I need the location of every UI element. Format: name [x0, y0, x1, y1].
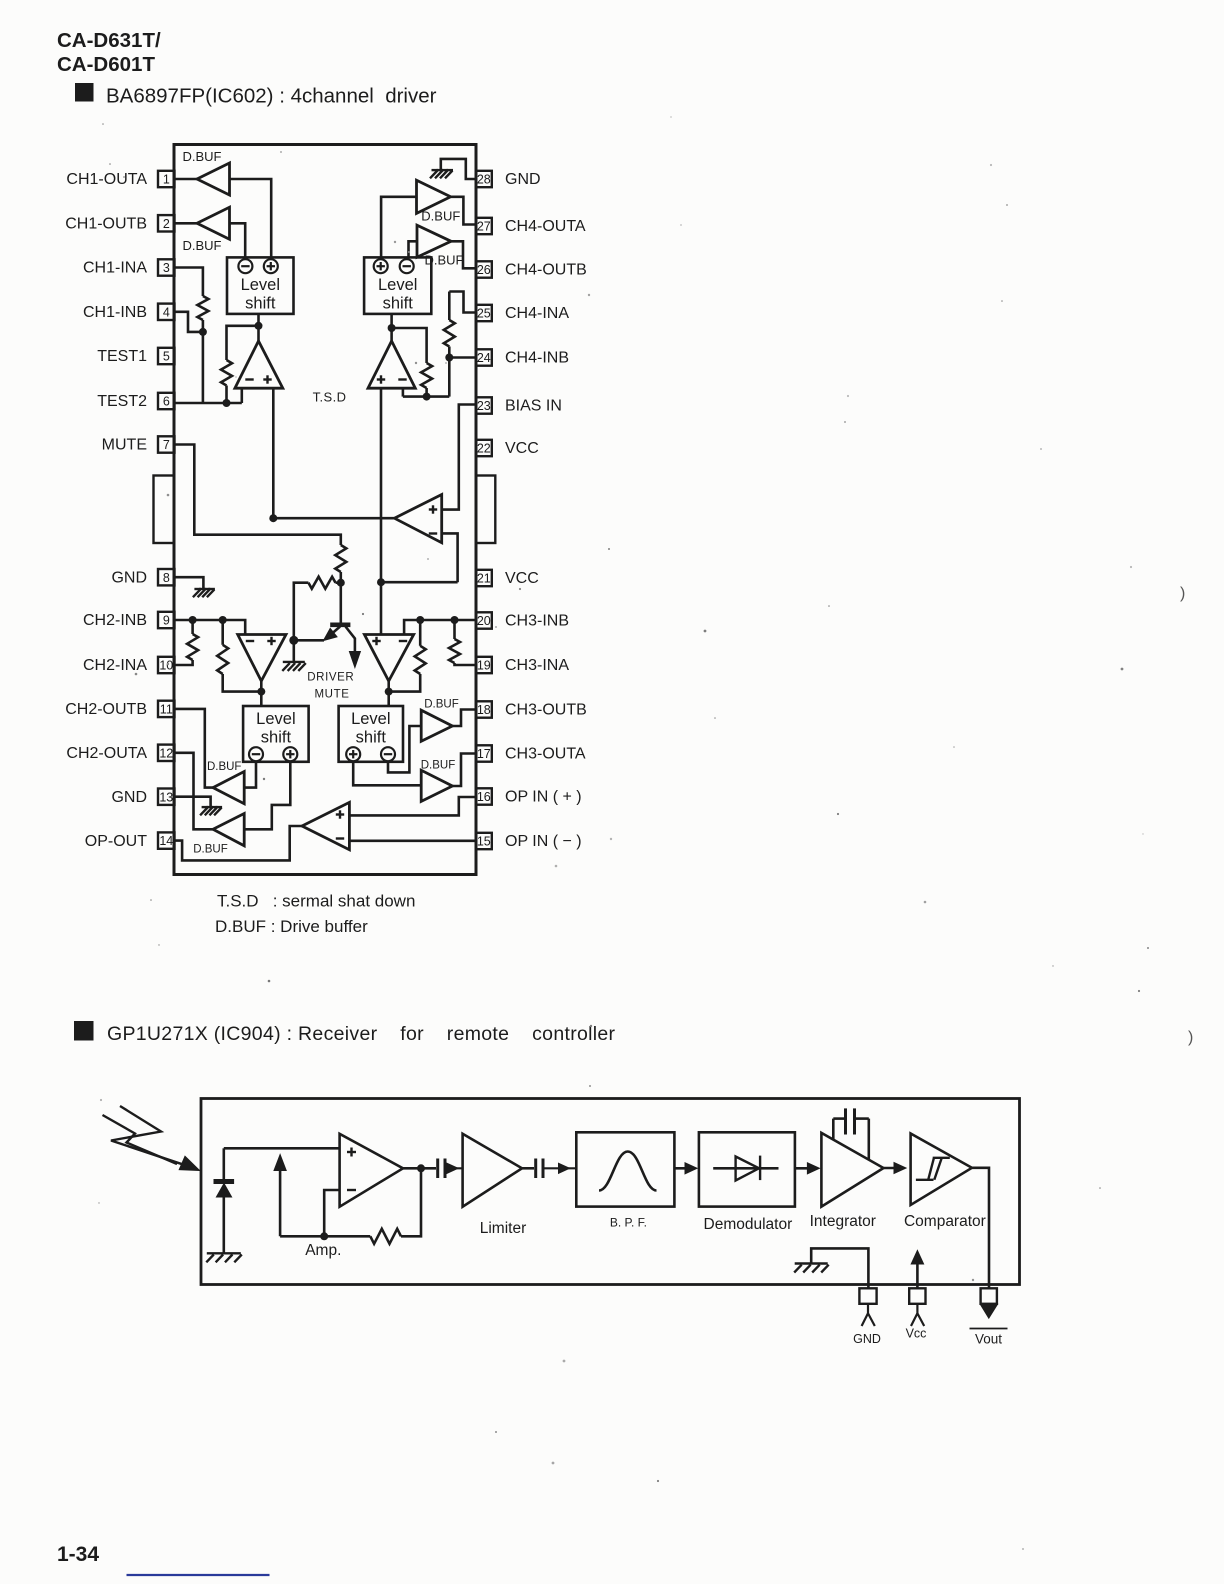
svg-text:CH3-OUTB: CH3-OUTB	[505, 702, 587, 719]
svg-text:): )	[1180, 585, 1185, 602]
svg-text:BIAS IN: BIAS IN	[505, 398, 562, 415]
svg-text:20: 20	[477, 614, 491, 628]
svg-text:21: 21	[477, 572, 491, 586]
svg-text:1-34: 1-34	[57, 1543, 99, 1566]
svg-text:28: 28	[477, 173, 491, 187]
svg-text:18: 18	[477, 703, 491, 717]
svg-text:BA6897FP(IC602) : 4channel dr: BA6897FP(IC602) : 4channel driver	[106, 85, 437, 108]
svg-text:D.BUF: D.BUF	[193, 844, 228, 856]
svg-text:CH3-OUTA: CH3-OUTA	[505, 746, 586, 763]
svg-text:11: 11	[160, 703, 173, 717]
svg-text:2: 2	[163, 217, 170, 231]
svg-text:5: 5	[163, 350, 170, 364]
svg-text:CH1-INA: CH1-INA	[83, 260, 147, 277]
svg-text:6: 6	[163, 395, 170, 409]
svg-text:Amp.: Amp.	[305, 1242, 341, 1259]
svg-text:Level: Level	[256, 710, 295, 728]
svg-text:B. P. F.: B. P. F.	[610, 1216, 647, 1230]
svg-text:14: 14	[159, 834, 173, 848]
svg-text:CH2-INA: CH2-INA	[83, 657, 147, 674]
svg-text:CH1-OUTA: CH1-OUTA	[66, 171, 147, 188]
svg-text:25: 25	[477, 307, 491, 321]
svg-text:CH1-INB: CH1-INB	[83, 304, 147, 321]
svg-text:shift: shift	[245, 295, 276, 313]
svg-text:CH3-INA: CH3-INA	[505, 657, 569, 674]
svg-text:MUTE: MUTE	[102, 437, 147, 454]
svg-text:GP1U271X (IC904) : Receiver: GP1U271X (IC904) : Receiver for remote c…	[107, 1023, 616, 1045]
svg-text:Level: Level	[378, 276, 417, 294]
svg-text:CA-D601T: CA-D601T	[57, 53, 155, 76]
svg-text:D.BUF: D.BUF	[421, 209, 460, 224]
svg-text:12: 12	[159, 746, 173, 760]
svg-text:8: 8	[163, 571, 170, 585]
svg-text:4: 4	[163, 305, 170, 319]
svg-text:CH4-INA: CH4-INA	[505, 305, 569, 322]
svg-text:TEST1: TEST1	[97, 348, 147, 365]
svg-text:10: 10	[159, 659, 173, 673]
svg-text:16: 16	[477, 790, 491, 804]
svg-text:Comparator: Comparator	[904, 1213, 986, 1230]
svg-text:GND: GND	[111, 789, 147, 806]
svg-text:CH1-OUTB: CH1-OUTB	[65, 216, 147, 233]
svg-text:D.BUF: D.BUF	[424, 699, 459, 711]
svg-text:9: 9	[163, 614, 170, 628]
svg-text:3: 3	[163, 261, 170, 275]
svg-text:27: 27	[477, 220, 491, 234]
svg-text:Vout: Vout	[975, 1332, 1002, 1347]
svg-text:VCC: VCC	[505, 440, 539, 457]
svg-text:T.S.D : sermal shat down: T.S.D : sermal shat down	[217, 892, 415, 911]
svg-text:shift: shift	[356, 729, 387, 747]
svg-text:OP IN ( + ): OP IN ( + )	[505, 789, 582, 806]
svg-text:GND: GND	[111, 569, 147, 586]
svg-text:D.BUF : Drive buffer: D.BUF : Drive buffer	[215, 917, 368, 936]
svg-text:): )	[1188, 1029, 1193, 1046]
svg-text:D.BUF: D.BUF	[421, 760, 456, 772]
svg-text:D.BUF: D.BUF	[183, 149, 222, 164]
svg-text:shift: shift	[383, 295, 414, 313]
svg-text:MUTE: MUTE	[315, 689, 350, 701]
svg-text:CH4-OUTB: CH4-OUTB	[505, 262, 587, 279]
svg-text:shift: shift	[261, 729, 292, 747]
svg-text:CA-D631T/: CA-D631T/	[57, 29, 161, 52]
svg-text:GND: GND	[853, 1332, 881, 1346]
svg-text:CH2-INB: CH2-INB	[83, 612, 147, 629]
svg-text:19: 19	[477, 659, 491, 673]
svg-text:Integrator: Integrator	[810, 1213, 876, 1230]
svg-text:CH2-OUTB: CH2-OUTB	[65, 701, 147, 718]
svg-text:D.BUF: D.BUF	[207, 761, 242, 773]
svg-text:26: 26	[477, 263, 491, 277]
svg-text:D.BUF: D.BUF	[183, 238, 222, 253]
svg-text:17: 17	[477, 747, 491, 761]
svg-text:GND: GND	[505, 171, 541, 188]
svg-text:CH4-OUTA: CH4-OUTA	[505, 218, 586, 235]
svg-text:TEST2: TEST2	[97, 393, 147, 410]
svg-text:OP IN ( − ): OP IN ( − )	[505, 833, 582, 850]
svg-text:T.S.D: T.S.D	[313, 390, 347, 405]
svg-text:CH3-INB: CH3-INB	[505, 613, 569, 630]
svg-text:13: 13	[159, 790, 173, 804]
svg-text:CH2-OUTA: CH2-OUTA	[66, 745, 147, 762]
svg-text:15: 15	[477, 835, 491, 849]
svg-text:23: 23	[477, 399, 491, 413]
svg-text:Vcc: Vcc	[906, 1327, 927, 1341]
svg-text:CH4-INB: CH4-INB	[505, 350, 569, 367]
svg-text:Demodulator: Demodulator	[704, 1216, 793, 1233]
svg-text:DRIVER: DRIVER	[307, 672, 354, 684]
svg-text:24: 24	[477, 351, 491, 365]
svg-text:22: 22	[477, 442, 491, 456]
svg-text:Level: Level	[351, 710, 390, 728]
svg-text:7: 7	[163, 438, 170, 452]
svg-text:Level: Level	[241, 276, 280, 294]
svg-text:1: 1	[163, 173, 170, 187]
svg-text:OP-OUT: OP-OUT	[85, 833, 147, 850]
svg-text:VCC: VCC	[505, 570, 539, 587]
svg-text:Limiter: Limiter	[480, 1220, 527, 1237]
